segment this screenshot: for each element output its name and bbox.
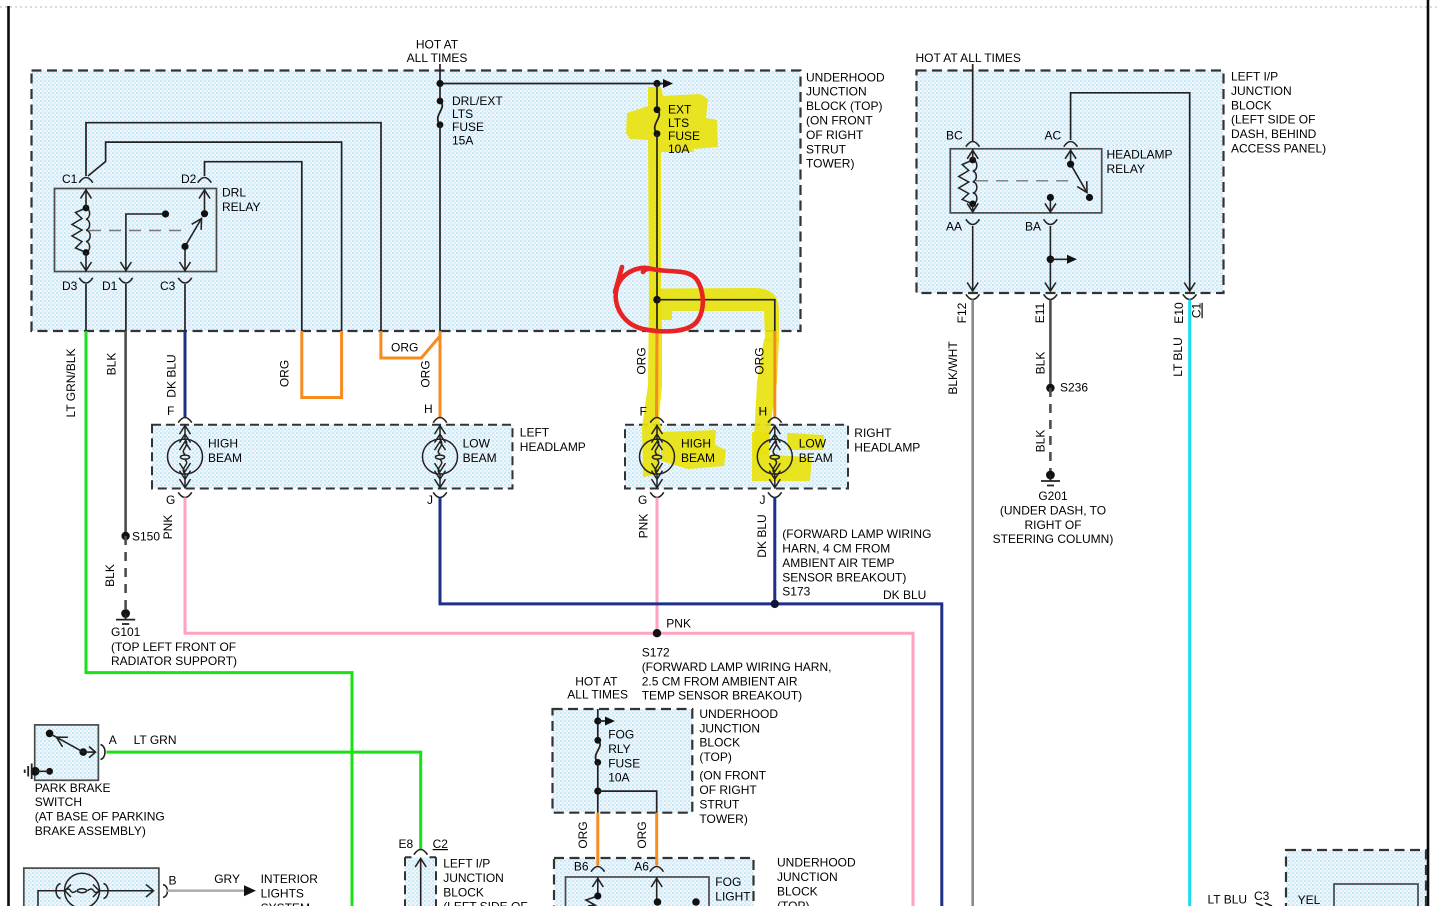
connector H left [433, 418, 447, 423]
svg-text:PNK: PNK [637, 514, 651, 539]
svg-text:A: A [109, 733, 117, 747]
svg-text:S236: S236 [1060, 381, 1088, 395]
svg-text:(ON FRONT: (ON FRONT [806, 114, 873, 128]
svg-text:D3: D3 [62, 279, 78, 293]
svg-text:RIGHT: RIGHT [854, 426, 892, 440]
svg-text:RELAY: RELAY [1107, 162, 1145, 176]
svg-text:ORG: ORG [635, 347, 649, 374]
junction block box RIGHT HEADLAMP [625, 425, 848, 489]
svg-text:TOWER): TOWER) [806, 157, 854, 171]
svg-text:(ON FRONT: (ON FRONT [699, 769, 766, 783]
svg-text:ORG: ORG [576, 821, 590, 848]
svg-text:RIGHT OF: RIGHT OF [1024, 518, 1081, 532]
bulb LEFT LOW BEAM [423, 425, 458, 489]
svg-text:G201: G201 [1038, 489, 1068, 503]
page left border [7, 6, 10, 906]
headlamp relay pin AA interior [972, 204, 974, 213]
svg-text:H: H [759, 405, 768, 419]
connector B6 [591, 867, 605, 872]
svg-text:D2: D2 [181, 172, 197, 186]
svg-text:AC: AC [1045, 129, 1062, 143]
svg-text:A6: A6 [634, 860, 649, 874]
ground G101 [121, 609, 130, 618]
node S236 [1046, 384, 1054, 392]
wire DK BLU left low beam J to bus [440, 498, 942, 906]
svg-text:PNK: PNK [161, 515, 175, 540]
wire ORG 15A fuse to left low beam H [439, 331, 442, 417]
svg-text:F: F [167, 404, 174, 418]
svg-text:B6: B6 [574, 860, 589, 874]
node EXT LTS junction [653, 296, 661, 304]
svg-text:STRUT: STRUT [699, 798, 740, 812]
svg-text:(FORWARD LAMP WIRING: (FORWARD LAMP WIRING [782, 527, 931, 541]
svg-text:BLOCK: BLOCK [1231, 98, 1272, 112]
svg-text:HIGH: HIGH [208, 437, 238, 451]
svg-text:BEAM: BEAM [799, 451, 833, 465]
svg-text:C3: C3 [1254, 889, 1270, 903]
wire ORG fog A6 [655, 813, 658, 866]
svg-text:JUNCTION: JUNCTION [777, 870, 838, 884]
connector E11 [1044, 294, 1058, 299]
svg-text:HEADLAMP: HEADLAMP [1107, 148, 1173, 162]
headlamp relay pin AC interior [1070, 149, 1072, 161]
svg-text:BLK: BLK [1034, 352, 1048, 375]
svg-text:HIGH: HIGH [681, 437, 711, 451]
svg-text:ORG: ORG [278, 360, 292, 387]
connector C3 [178, 278, 192, 283]
connector AA [966, 219, 980, 224]
wire BLK dashed to G201 [1049, 388, 1052, 472]
svg-text:C1: C1 [1190, 303, 1204, 319]
wire EXT LTS fuse output to junction [656, 134, 658, 331]
svg-text:G: G [166, 493, 175, 507]
svg-text:BA: BA [1025, 220, 1041, 234]
svg-text:RLY: RLY [608, 742, 630, 756]
component PARK BRAKE SWITCH box [35, 725, 99, 780]
wire fog fuse branch [598, 791, 657, 813]
fog relay coil zigzag partial [586, 896, 598, 906]
wire BLK/WHT from F12 [971, 300, 974, 906]
svg-text:FOG: FOG [608, 728, 634, 742]
svg-text:HEADLAMP: HEADLAMP [520, 440, 586, 454]
wire AC feed from E10 [1071, 93, 1190, 291]
connector D3 [79, 278, 93, 283]
svg-text:S172: S172 [642, 646, 670, 660]
connector F right [650, 418, 664, 423]
headlamp relay switch arm [1071, 164, 1087, 192]
DRL relay switch arm [185, 219, 202, 247]
node BA branch arrow [1047, 255, 1055, 263]
wire junction to right low beam corner [657, 300, 775, 331]
svg-text:STRUT: STRUT [806, 142, 847, 156]
park brake switch output arm [83, 751, 94, 753]
svg-text:UNDERHOOD: UNDERHOOD [777, 856, 856, 870]
connector E8/C2 [414, 850, 428, 906]
svg-text:BLOCK: BLOCK [443, 885, 484, 899]
node S173 [771, 600, 779, 608]
relay coil headlamp relay [959, 160, 977, 204]
connector J left [433, 492, 447, 497]
svg-text:(LEFT SIDE OF: (LEFT SIDE OF [443, 900, 527, 906]
wire fog fuse feed [597, 709, 599, 740]
svg-text:LEFT I/P: LEFT I/P [1231, 70, 1278, 84]
svg-text:LEFT: LEFT [520, 426, 550, 440]
node S150 [121, 532, 129, 540]
DRL relay actuation dashed line [89, 230, 183, 232]
connector F12 [966, 294, 980, 299]
junction block box underhood junction block (top-left) [32, 71, 801, 332]
svg-text:BLK: BLK [103, 564, 117, 587]
wire DK BLU from C3 to left high beam F [184, 331, 187, 417]
svg-text:HARN, 4 CM FROM: HARN, 4 CM FROM [782, 542, 890, 556]
connector A [101, 745, 106, 760]
wire AA to F12 [972, 226, 974, 291]
svg-text:JUNCTION: JUNCTION [1231, 84, 1292, 98]
bulb RIGHT HIGH BEAM [640, 425, 675, 489]
headlamp relay actuation dashed line [976, 180, 1068, 182]
svg-text:YEL: YEL [1298, 893, 1321, 906]
svg-text:DK BLU: DK BLU [165, 354, 179, 397]
highlighter: LOW text blob [787, 433, 824, 450]
highlighter: EXT LTS FUSE blob [626, 87, 718, 300]
connector D1 [119, 278, 133, 283]
svg-text:(TOP LEFT FRONT OF: (TOP LEFT FRONT OF [111, 640, 236, 654]
svg-text:LTS: LTS [452, 107, 473, 121]
svg-text:D1: D1 [102, 279, 118, 293]
bulb LEFT HIGH BEAM [168, 425, 203, 489]
svg-text:LEFT I/P: LEFT I/P [443, 857, 490, 871]
E8 arrow into left I/P block [420, 860, 422, 906]
svg-text:E8: E8 [399, 837, 414, 851]
svg-text:C1: C1 [62, 172, 78, 186]
svg-text:UNDERHOOD: UNDERHOOD [699, 707, 778, 721]
svg-text:JUNCTION: JUNCTION [443, 871, 504, 885]
svg-text:RADIATOR SUPPORT): RADIATOR SUPPORT) [111, 654, 237, 668]
wire D3 black segment [85, 284, 87, 331]
svg-text:FUSE: FUSE [608, 756, 640, 770]
svg-text:BLK: BLK [1034, 430, 1048, 453]
svg-text:10A: 10A [608, 771, 629, 785]
wire DK BLU right low beam J [773, 498, 776, 604]
wire ORG U-loop (D2 to C1 bus) [302, 331, 342, 398]
svg-text:2.5 CM FROM AMBIENT AIR: 2.5 CM FROM AMBIENT AIR [642, 674, 798, 688]
svg-text:JUNCTION: JUNCTION [699, 721, 760, 735]
park brake switch contacts [46, 730, 54, 738]
svg-text:STEERING COLUMN): STEERING COLUMN) [993, 532, 1114, 546]
ground G201 [1046, 471, 1055, 480]
wire C3 black segment [184, 284, 186, 331]
connector C3 marks [1256, 903, 1272, 906]
svg-text:(UNDER DASH, TO: (UNDER DASH, TO [1000, 503, 1106, 517]
wire ORG to right high beam F [655, 331, 659, 417]
svg-text:FUSE: FUSE [452, 120, 484, 134]
svg-text:FOG: FOG [715, 875, 741, 889]
svg-text:BLOCK: BLOCK [699, 736, 740, 750]
wire LT BLU from E10 [1188, 300, 1191, 906]
connector E10 [1183, 294, 1197, 299]
svg-text:F12: F12 [955, 302, 969, 323]
headlamp relay pin BC interior [972, 149, 974, 160]
svg-text:AA: AA [946, 220, 962, 234]
highlighter: horizontal run to right headlamp corner [649, 288, 779, 341]
DRL relay pin D3 interior [85, 253, 87, 272]
svg-text:ORG: ORG [419, 360, 433, 387]
park brake switch case ground contacts [31, 767, 40, 776]
junction block box bottom-right module [1286, 850, 1426, 906]
connector G right [650, 492, 664, 497]
wire D2 feed bus (to x301.8) [205, 162, 302, 331]
page top dotted rule [0, 6, 1438, 8]
wire LT GRN from park brake A to E8 [107, 752, 421, 849]
svg-text:JUNCTION: JUNCTION [806, 85, 867, 99]
connector G left [178, 492, 192, 497]
svg-text:OF RIGHT: OF RIGHT [699, 783, 757, 797]
svg-text:B: B [169, 874, 177, 888]
svg-text:(FORWARD LAMP WIRING HARN,: (FORWARD LAMP WIRING HARN, [642, 660, 832, 674]
junction block box left I/P (E8, bottom) [405, 857, 436, 906]
svg-text:LT BLU: LT BLU [1171, 337, 1185, 377]
relay HEADLAMP RELAY box [950, 149, 1101, 213]
svg-text:DRL: DRL [222, 186, 246, 200]
wire C1 diagonal feed bus (to x341.6) [88, 142, 342, 331]
DRL relay pin D1 interior wire to fixed contact [126, 214, 162, 272]
svg-text:LIGHT: LIGHT [715, 890, 751, 904]
relay FOG LIGHT RELAY inner box [566, 877, 710, 906]
svg-text:LT GRN/BLK: LT GRN/BLK [64, 349, 78, 418]
svg-text:ALL TIMES: ALL TIMES [407, 51, 468, 65]
svg-text:SENSOR BREAKOUT): SENSOR BREAKOUT) [782, 570, 906, 584]
connector A6 [650, 867, 664, 872]
wire fuse top bus with arrow [440, 83, 666, 85]
svg-text:SYSTEM: SYSTEM [261, 901, 310, 906]
wire ORG to right low beam H [773, 331, 776, 417]
highlighter: ORG drop to H / LOW beam [753, 339, 779, 456]
node S172 [653, 629, 661, 637]
svg-text:DK BLU: DK BLU [883, 588, 926, 602]
connector H right [768, 418, 782, 423]
svg-text:ACCESS PANEL): ACCESS PANEL) [1231, 142, 1326, 156]
svg-text:OF RIGHT: OF RIGHT [806, 128, 864, 142]
svg-text:ORG: ORG [391, 341, 418, 355]
svg-text:E10: E10 [1172, 302, 1186, 324]
module inner box (bottom right) [1334, 884, 1418, 906]
junction block box underhood junction block (fog fuse) [553, 709, 693, 813]
svg-text:HEADLAMP: HEADLAMP [854, 440, 920, 454]
fuse FOG RLY FUSE 10A [595, 740, 600, 762]
svg-text:15A: 15A [452, 133, 473, 147]
wire fog fuse output [597, 762, 599, 812]
svg-text:FUSE: FUSE [668, 129, 700, 143]
svg-text:EXT: EXT [668, 103, 692, 117]
svg-text:DRL/EXT: DRL/EXT [452, 94, 503, 108]
DRL relay pin C1 interior [81, 189, 211, 272]
wire BLK from D1 to S150 [124, 331, 127, 536]
wire PNK left high beam G to bus [185, 498, 913, 906]
svg-text:LTS: LTS [668, 116, 689, 130]
svg-text:LOW: LOW [463, 437, 491, 451]
junction block box left I/P junction block (top-right) [917, 71, 1224, 294]
wire PNK right high beam G [656, 498, 659, 634]
wire BLK dashed to G101 [124, 536, 127, 611]
wire C1 feed bus (to x381) [86, 123, 381, 331]
headlamp relay pin BA interior [1049, 198, 1051, 213]
highlighter: HIGH BEAM text blob [661, 430, 726, 469]
svg-text:J: J [760, 493, 766, 507]
DRL relay pin D2 interior [204, 189, 206, 212]
fuse EXT LTS FUSE 10A [655, 110, 660, 134]
wire 15A fuse output [439, 125, 441, 331]
svg-text:C2: C2 [433, 837, 449, 851]
svg-text:ORG: ORG [753, 347, 767, 374]
wire HOT AT ALL TIMES feed (right) [972, 64, 974, 141]
connector AC [1064, 142, 1078, 147]
connector D2 [198, 178, 212, 183]
junction block box LEFT HEADLAMP [152, 425, 513, 489]
svg-text:RELAY: RELAY [222, 200, 260, 214]
wire ORG fog B6 [596, 813, 599, 866]
svg-text:J: J [427, 493, 433, 507]
fuse DRL/EXT LTS FUSE 15A [438, 101, 443, 125]
connector B [163, 885, 168, 898]
svg-text:BEAM: BEAM [208, 451, 242, 465]
svg-text:H: H [424, 402, 433, 416]
svg-text:G: G [638, 493, 647, 507]
wire BA to E11 [1049, 226, 1051, 291]
connector J right [768, 492, 782, 497]
svg-text:BLK/WHT: BLK/WHT [946, 341, 960, 395]
connector BC [966, 142, 980, 147]
svg-text:LOW: LOW [799, 437, 827, 451]
svg-text:(LEFT SIDE OF: (LEFT SIDE OF [1231, 113, 1315, 127]
component interior lights box [24, 868, 159, 906]
wire GRY to interior lights system [166, 890, 245, 892]
svg-text:(TOP): (TOP) [699, 750, 731, 764]
svg-text:HOT AT: HOT AT [575, 675, 618, 689]
page right border [1427, 0, 1430, 906]
wire EXT LTS fuse drop [656, 84, 658, 110]
connector F left [178, 418, 192, 423]
svg-text:AMBIENT AIR TEMP: AMBIENT AIR TEMP [782, 556, 894, 570]
relay DRL RELAY box [55, 189, 217, 272]
svg-text:(AT BASE OF PARKING: (AT BASE OF PARKING [35, 810, 165, 824]
DRL relay pin C3 interior [184, 249, 186, 272]
bulb interior lights [38, 873, 168, 906]
highlighter: LOW beam bulb blob [752, 432, 812, 481]
svg-text:PNK: PNK [666, 617, 691, 631]
svg-text:BLK: BLK [105, 353, 119, 376]
svg-text:TEMP SENSOR BREAKOUT): TEMP SENSOR BREAKOUT) [642, 689, 802, 703]
svg-text:ALL TIMES: ALL TIMES [567, 688, 628, 702]
svg-text:(TOP): (TOP) [777, 899, 809, 906]
svg-text:LT BLU: LT BLU [1208, 893, 1248, 906]
wire HOT AT ALL TIMES feed [439, 64, 441, 101]
svg-text:LIGHTS: LIGHTS [261, 886, 304, 900]
svg-text:BC: BC [946, 129, 963, 143]
svg-text:DASH, BEHIND: DASH, BEHIND [1231, 127, 1317, 141]
svg-text:INTERIOR: INTERIOR [261, 872, 319, 886]
red pen circle around EXT LTS junction [615, 267, 703, 331]
svg-text:BEAM: BEAM [681, 451, 715, 465]
svg-text:DK BLU: DK BLU [755, 514, 769, 557]
wire D1 black segment [125, 284, 127, 331]
svg-text:SWITCH: SWITCH [35, 795, 82, 809]
svg-text:S150: S150 [132, 530, 160, 544]
svg-text:G101: G101 [111, 625, 141, 639]
svg-text:BEAM: BEAM [463, 451, 497, 465]
svg-text:10A: 10A [668, 142, 689, 156]
connector C1 [79, 178, 93, 183]
svg-text:BLOCK (TOP): BLOCK (TOP) [806, 99, 882, 113]
svg-text:BRAKE ASSEMBLY): BRAKE ASSEMBLY) [35, 824, 146, 838]
svg-text:ORG: ORG [635, 821, 649, 848]
svg-text:F: F [640, 405, 647, 419]
svg-text:LT GRN: LT GRN [134, 733, 177, 747]
junction block box underhood junction block (fog relay) [554, 858, 754, 906]
svg-text:S173: S173 [782, 585, 810, 599]
bulb RIGHT LOW BEAM [757, 425, 792, 489]
wire BLK from E11 to S236 [1049, 300, 1052, 389]
svg-text:GRY: GRY [214, 872, 240, 886]
highlighter: ORG drop to F / HIGH beam [642, 300, 662, 477]
relay coil DRL relay [72, 208, 90, 253]
svg-text:HOT AT ALL TIMES: HOT AT ALL TIMES [916, 51, 1021, 65]
svg-text:PARK BRAKE: PARK BRAKE [35, 781, 111, 795]
connector BA [1044, 219, 1058, 224]
svg-text:C3: C3 [160, 279, 176, 293]
wire LT GRN/BLK from D3 [86, 331, 352, 906]
svg-text:TOWER): TOWER) [699, 812, 747, 826]
svg-text:E11: E11 [1033, 302, 1047, 323]
svg-text:HOT AT: HOT AT [416, 38, 459, 52]
svg-text:BLOCK: BLOCK [777, 885, 818, 899]
svg-text:UNDERHOOD: UNDERHOOD [806, 70, 885, 84]
wire ORG branch jog to C1 bus [381, 331, 440, 358]
